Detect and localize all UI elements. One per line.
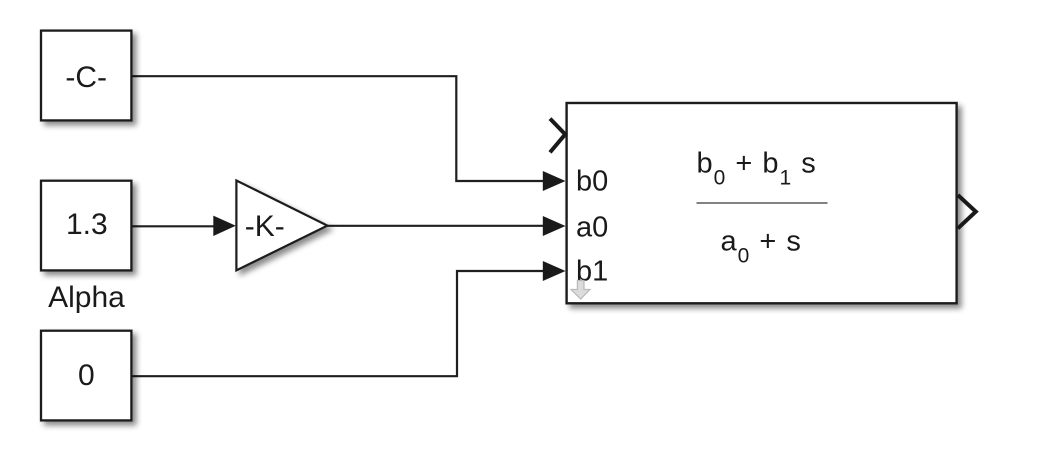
svg-text:-C-: -C-: [65, 61, 107, 94]
svg-text:1.3: 1.3: [66, 208, 108, 241]
svg-text:Alpha: Alpha: [48, 281, 125, 314]
svg-text:b0: b0: [576, 166, 608, 198]
svg-text:0: 0: [78, 359, 95, 392]
svg-text:-K-: -K-: [245, 210, 285, 243]
svg-text:a0: a0: [576, 212, 608, 244]
